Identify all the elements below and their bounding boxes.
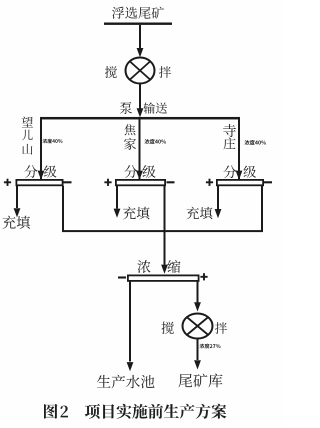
arrow to 充填 (middle): [114, 209, 121, 218]
label 浓度40% (left): [43, 139, 63, 144]
label 泵 (pump): [120, 102, 132, 114]
wire T1 underflow to mixer M2: [197, 281, 199, 302]
label 级 (right classifier): [243, 166, 256, 178]
wire F1 plus output: [16, 186, 18, 208]
label 搅 (M1 left): [105, 66, 117, 78]
label 级 (middle classifier): [143, 165, 156, 178]
label 儿: [22, 130, 33, 140]
label 输送 (transport): [144, 102, 168, 113]
mixer M1 (agitator circle-X): [126, 58, 155, 84]
label 分 (left classifier): [24, 165, 37, 178]
arrow to 充填 (right): [215, 209, 222, 218]
caption 图: [44, 404, 58, 419]
label 充填 (right backfill): [186, 207, 212, 220]
label 级 (left classifier): [44, 165, 57, 177]
arrow into classifier F2: [136, 171, 143, 180]
plus sign F2: [104, 179, 111, 186]
wire F3 minus output down: [261, 186, 263, 232]
arrow into mixer M2: [194, 302, 201, 311]
wire F2 plus output: [116, 186, 118, 209]
wire F2 minus output down to thickener junction: [164, 186, 166, 265]
classifier F2 box: [116, 180, 165, 185]
wire M2 to tailings pond: [197, 338, 199, 360]
wire right branch drop: [238, 117, 240, 179]
wire T1 overflow to water pool: [129, 281, 131, 361]
wire source to mixer M1: [139, 25, 141, 49]
label 浮选尾矿 (flotation tailings source): [112, 7, 164, 19]
arrow to 生产水池: [127, 362, 134, 371]
label 分 (middle classifier): [124, 165, 137, 178]
label 缩 (thickener): [168, 260, 181, 273]
label 生产水池 (production water pool): [97, 375, 155, 389]
plus sign F3: [206, 179, 213, 186]
arrow into distribution line: [137, 108, 144, 117]
arrow into mixer M1: [137, 48, 144, 57]
minus sign F3: [264, 181, 272, 183]
arrow to 尾矿库: [194, 360, 201, 369]
wire left branch drop: [40, 117, 42, 179]
classifier F3 box: [217, 180, 263, 185]
label 浓度40% (right): [245, 140, 266, 145]
caption 项目实施前生产方案: [85, 404, 226, 419]
minus sign T1: [118, 276, 126, 278]
arrow into classifier F3: [236, 171, 243, 180]
label 充填 (middle backfill): [123, 207, 150, 220]
label 充填 (left backfill): [3, 216, 31, 229]
classifier F1 box: [16, 180, 62, 185]
label 搅 (M2 left): [162, 322, 174, 334]
arrow to 充填 (left): [14, 208, 21, 217]
label 山: [22, 144, 32, 155]
arrow into classifier F1: [38, 171, 45, 180]
label 焦 (middle shaft name): [125, 124, 136, 135]
wire M1 to pump line: [139, 84, 141, 109]
label 浓 (thickener): [137, 260, 150, 273]
label 寺 (right shaft name): [223, 124, 236, 137]
label 浓度27%: [199, 344, 220, 349]
overflow collection line: [62, 230, 263, 232]
label 尾矿库 (tailings pond): [178, 374, 222, 388]
distribution header line: [40, 117, 240, 120]
plus sign T1: [200, 273, 207, 280]
label 家: [124, 138, 136, 150]
minus sign F2: [167, 181, 175, 183]
label 庄: [223, 138, 235, 150]
label 望 (left shaft name): [22, 116, 33, 127]
label 浓度40% (middle): [145, 139, 166, 144]
wire F1 minus output down: [62, 186, 64, 232]
plus sign F1: [4, 179, 11, 186]
mixer M2 (agitator circle-X): [183, 314, 213, 339]
thickener T1 box: [128, 275, 199, 281]
label 分 (right classifier): [223, 165, 236, 178]
arrow into thickener T1: [161, 265, 168, 274]
minus sign F1: [64, 181, 72, 183]
wire F3 plus output: [217, 186, 219, 209]
label 拌 (M2 right): [215, 322, 227, 334]
wire middle branch drop: [139, 117, 141, 179]
label 拌 (M1 right): [159, 66, 171, 78]
caption 2: [61, 406, 68, 418]
node 浮选尾矿 underline bar: [104, 23, 172, 25]
